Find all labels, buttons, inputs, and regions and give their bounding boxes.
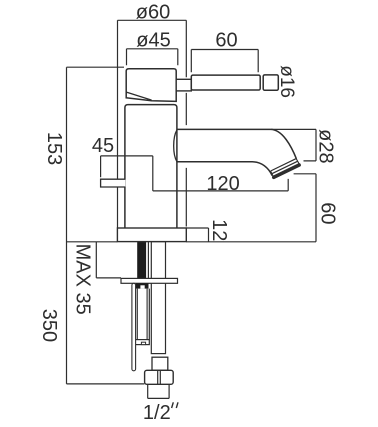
sleeve tube outer <box>135 289 150 340</box>
base ring <box>117 228 186 242</box>
svg-text:153: 153 <box>43 132 65 165</box>
aerator ring line 1 <box>271 159 297 171</box>
hex nut <box>145 370 174 384</box>
handle stem <box>176 79 191 91</box>
svg-text:ø28: ø28 <box>315 129 337 163</box>
handle end cap <box>263 75 278 90</box>
svg-text:ø45: ø45 <box>136 29 170 51</box>
sleeve cap notch <box>141 342 145 344</box>
aerator end band <box>274 165 299 177</box>
dim ø60 lines <box>118 20 187 227</box>
hose tail tube <box>151 242 165 354</box>
dim ø45 lines <box>127 49 178 66</box>
svg-text:MAX 35: MAX 35 <box>72 244 94 315</box>
inch tick marks <box>172 402 178 408</box>
45 tab on body left <box>101 179 126 187</box>
hose end fitting <box>152 357 168 370</box>
body cylinder <box>125 105 177 229</box>
dim 45 lines <box>101 156 153 191</box>
svg-text:350: 350 <box>38 309 60 342</box>
svg-text:12: 12 <box>208 219 230 241</box>
dim 60 right lines <box>294 174 316 242</box>
hex nut facet lines <box>158 370 161 384</box>
threaded stud black <box>137 242 146 279</box>
spout top edge <box>177 129 297 158</box>
dim MAX 35 lines <box>96 242 121 278</box>
washer plate <box>121 278 178 283</box>
sleeve tube inner <box>137 289 147 340</box>
dim 153/350 shared line <box>67 67 145 384</box>
svg-text:60: 60 <box>316 202 338 224</box>
dim 120 lines <box>153 179 288 191</box>
handle head <box>126 69 176 102</box>
sleeve cap <box>135 340 150 345</box>
aerator end connectors <box>271 159 300 177</box>
spout body intersection curve <box>174 130 177 162</box>
dim 12 lines <box>186 228 208 242</box>
dim ø28 lines <box>271 129 316 161</box>
long rod <box>132 283 136 371</box>
head angled joint line <box>126 92 151 100</box>
spout bottom edge <box>177 162 272 176</box>
fixing nut black <box>136 283 149 288</box>
fixing nut notch <box>140 285 144 288</box>
aerator ring line 2 <box>272 161 298 173</box>
dim 1/2 lines <box>148 384 169 398</box>
dim 60 handle lines <box>191 50 258 73</box>
handle bar <box>191 75 260 90</box>
deck line right <box>186 241 316 243</box>
svg-text:60: 60 <box>215 29 237 51</box>
svg-text:45: 45 <box>92 135 114 157</box>
svg-text:1/2: 1/2 <box>143 402 171 424</box>
hose second edge line <box>147 242 149 279</box>
deck line left <box>67 241 118 243</box>
svg-text:120: 120 <box>206 173 239 195</box>
